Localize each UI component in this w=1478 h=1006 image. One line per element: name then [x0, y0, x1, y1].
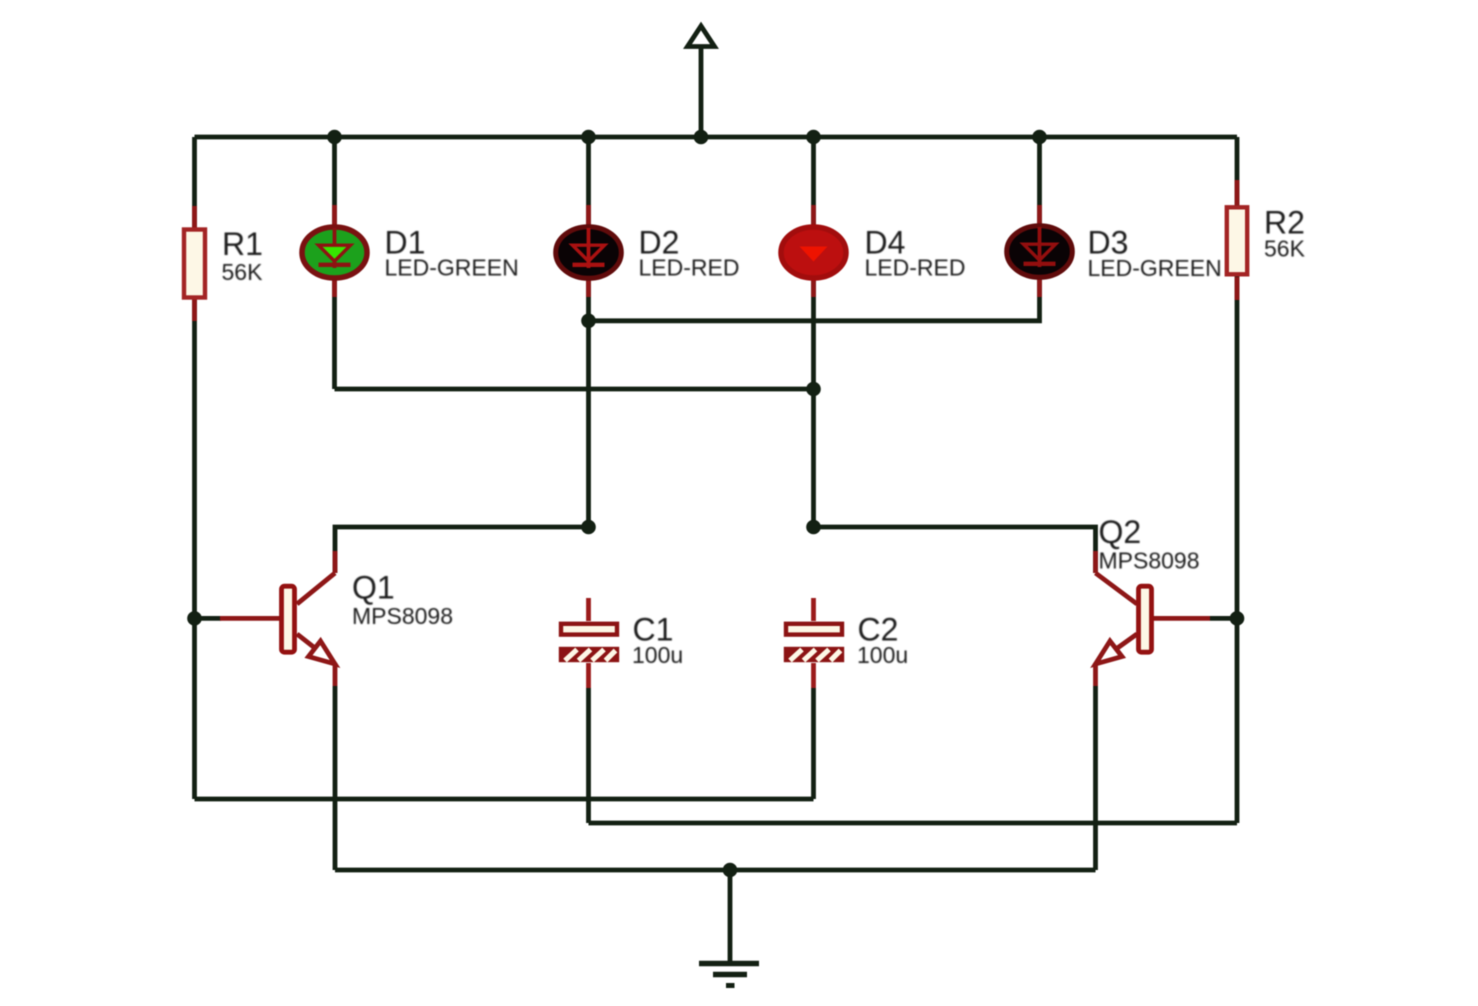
capacitor C1 lead bottom [586, 663, 591, 688]
node top rail VCC [694, 130, 709, 145]
LED D2 lead [586, 205, 591, 297]
wire D1 to D4 cross link [335, 387, 814, 392]
Q1 base lead [195, 616, 222, 621]
capacitor C2 [786, 624, 842, 661]
node C2 top junction [806, 520, 821, 535]
svg-text:Q2: Q2 [1099, 514, 1142, 550]
Q2 base lead [1210, 616, 1237, 621]
resistor R2 [1227, 207, 1247, 274]
wire Q2 collector to C2 [814, 527, 1096, 573]
Q1 emitter arrow [309, 641, 336, 664]
svg-text:R1: R1 [222, 226, 263, 262]
node top rail D4 [806, 130, 821, 145]
power symbol VCC [688, 26, 715, 137]
LED D4 (red, on) [781, 227, 846, 278]
Q1 base bar [282, 586, 295, 652]
wire Q1 emitter vertical [333, 686, 338, 870]
node top rail D1 [327, 130, 342, 145]
wire Q2 base to C1 bottom [589, 821, 1238, 826]
resistor R1 [184, 230, 205, 298]
LED D3 (green, off) [1007, 226, 1073, 278]
wire top rail [195, 135, 1238, 140]
svg-text:MPS8098: MPS8098 [352, 603, 453, 629]
LED D3 lead [1037, 205, 1042, 297]
capacitor C1 lead top [586, 598, 591, 621]
capacitor C2 lead bottom [811, 663, 816, 688]
wire D4 / C2 vertical [811, 137, 816, 527]
LED D4 lead [811, 205, 816, 297]
ground [699, 870, 759, 986]
node D4 link junction [806, 382, 821, 397]
wire C1 bottom vertical [586, 688, 591, 823]
wire D1 vertical [332, 137, 337, 389]
Q1 collector lead [297, 551, 335, 604]
svg-text:100u: 100u [857, 642, 908, 668]
node D2 bottom junction [581, 314, 596, 329]
wire emitter rail [335, 868, 1096, 873]
Q2 emitter arrow [1096, 641, 1123, 664]
transistor Q2 [1096, 551, 1238, 686]
wire right vertical R2 branch [1235, 137, 1240, 823]
wire C2 bottom vertical [811, 688, 816, 799]
Q1 emitter lead [297, 634, 335, 686]
resistor R1 leads [192, 206, 197, 321]
wire Q2 emitter vertical [1093, 686, 1098, 870]
svg-text:LED-GREEN: LED-GREEN [1088, 255, 1222, 281]
wire D3 vertical [589, 137, 1040, 321]
node C1 top junction [581, 520, 596, 535]
resistor R2 leads [1235, 180, 1240, 300]
svg-text:100u: 100u [632, 642, 683, 668]
capacitor C1 [561, 624, 617, 661]
LED D1 lead [332, 205, 337, 297]
svg-text:MPS8098: MPS8098 [1099, 548, 1200, 574]
svg-text:56K: 56K [1264, 236, 1306, 262]
node Q1 base junction [187, 611, 202, 626]
LED D1 (green, on) [302, 227, 367, 278]
Q2 collector lead [1096, 551, 1138, 604]
wire Q1 base to C2 bottom [195, 797, 814, 802]
svg-text:LED-GREEN: LED-GREEN [385, 255, 519, 281]
node ground junction [723, 863, 738, 878]
svg-text:LED-RED: LED-RED [865, 255, 966, 281]
LED D2 (red, off) [556, 227, 622, 279]
node top rail D2 [581, 130, 596, 145]
wire left vertical R1 branch [192, 137, 197, 799]
wire D2 / C1 vertical [586, 137, 591, 527]
node Q2 base junction [1230, 611, 1245, 626]
svg-text:56K: 56K [222, 259, 264, 285]
svg-text:LED-RED: LED-RED [639, 255, 740, 281]
node top rail D3 [1032, 130, 1047, 145]
Q2 base bar [1139, 586, 1152, 652]
transistor Q1 [195, 551, 336, 686]
wire Q1 collector to C1 [335, 527, 589, 573]
Q2 emitter lead [1096, 634, 1138, 686]
svg-text:Q1: Q1 [352, 570, 395, 606]
capacitor C2 lead top [811, 598, 816, 621]
